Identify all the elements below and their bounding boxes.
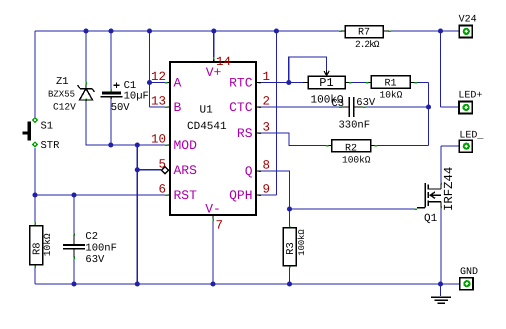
- svg-text:8: 8: [263, 159, 271, 173]
- wire R8 bottom: [34, 268, 36, 284]
- svg-text:R7: R7: [358, 28, 370, 39]
- svg-text:LED+: LED+: [458, 91, 482, 102]
- junction C2 top / RST net: [71, 192, 76, 197]
- junction pin14 / V+ rail: [211, 28, 216, 33]
- svg-text:CTC: CTC: [229, 100, 253, 115]
- svg-text:STR: STR: [41, 140, 61, 152]
- svg-text:Z1: Z1: [56, 76, 69, 88]
- capacitor C2: [63, 231, 117, 266]
- svg-text:P1: P1: [319, 76, 333, 90]
- wire C2 top: [73, 195, 75, 233]
- IC pin names: [174, 65, 253, 217]
- svg-text:BZX55: BZX55: [48, 89, 75, 99]
- pin ticks Q1 gate drain source: [415, 183, 442, 210]
- wire QPH to rail vertical: [261, 31, 276, 195]
- svg-text:1: 1: [263, 70, 271, 84]
- resistor R7: [341, 26, 389, 51]
- junction RTC / P1 wiper: [286, 80, 291, 85]
- svg-text:Q1: Q1: [424, 213, 438, 225]
- wire R2 right: [377, 145, 429, 147]
- wire V+ top rail right of R7: [391, 30, 464, 32]
- wire gate node to Q1 gate: [290, 208, 415, 210]
- wire C2 bottom: [73, 259, 75, 284]
- svg-text:10µF: 10µF: [124, 90, 149, 102]
- svg-text:B: B: [174, 100, 182, 115]
- svg-text:V-: V-: [205, 202, 221, 217]
- svg-text:7: 7: [216, 219, 224, 233]
- junction A-B feed / V+ rail: [147, 28, 152, 33]
- svg-text:2: 2: [263, 95, 271, 109]
- junction pin A: [147, 80, 152, 85]
- pin ticks Z1: [85, 82, 87, 101]
- wire ARS ground vertical: [136, 145, 138, 284]
- svg-text:14: 14: [216, 55, 231, 69]
- wire C1 bottom: [110, 99, 112, 145]
- junction QPH feed / V+ rail: [274, 28, 279, 33]
- svg-text:13: 13: [151, 95, 166, 109]
- wire C1 top: [110, 31, 112, 89]
- wire RC node vertical: [428, 83, 430, 146]
- junction S1 / R8 / RST net: [32, 192, 37, 197]
- svg-text:V24: V24: [459, 15, 477, 26]
- wire pin A: [150, 82, 166, 84]
- junction ARS net: [135, 167, 140, 172]
- svg-text:330nF: 330nF: [339, 120, 371, 132]
- pin ticks R3: [289, 226, 291, 268]
- wire left vertical to S1: [34, 31, 36, 117]
- wire Q1 source to ground rail: [440, 209, 442, 285]
- wire S1 bottom to RST rail: [34, 148, 36, 195]
- resistor R8 (vertical): [30, 225, 54, 266]
- svg-text:Q: Q: [245, 164, 253, 179]
- svg-text:100kΩ: 100kΩ: [297, 229, 307, 256]
- capacitor C3: [332, 97, 376, 132]
- svg-text:GND: GND: [460, 267, 478, 278]
- wire pin B: [150, 106, 166, 108]
- svg-text:LED_: LED_: [459, 131, 484, 142]
- svg-text:100kΩ: 100kΩ: [342, 155, 371, 166]
- wire RTC to P1: [261, 82, 303, 84]
- svg-text:RTC: RTC: [229, 76, 253, 91]
- resistor R2: [329, 140, 375, 166]
- connector LED+: [458, 91, 482, 114]
- capacitor C1 (electrolytic): [101, 80, 149, 114]
- wire V+ top rail left: [35, 30, 339, 32]
- resistor R1: [369, 76, 415, 101]
- svg-text:3: 3: [263, 121, 271, 135]
- svg-text:CD4541: CD4541: [187, 121, 227, 133]
- wire ground symbol stub: [440, 284, 442, 296]
- wire RST rail: [35, 194, 165, 196]
- svg-text:R3: R3: [285, 242, 297, 255]
- svg-text:100nF: 100nF: [85, 243, 117, 255]
- svg-text:MOD: MOD: [174, 138, 198, 153]
- ARS pin 5 inverter bubble: [162, 167, 169, 174]
- connector GND: [460, 267, 478, 290]
- svg-text:R1: R1: [384, 78, 396, 89]
- svg-text:2.2kΩ: 2.2kΩ: [355, 39, 380, 50]
- wire ARS stub: [137, 169, 161, 171]
- pin ticks U1 right pins 1 2 3 8 9: [259, 83, 262, 196]
- wire Z1 top: [85, 31, 87, 82]
- junction Q / R3 / gate node: [287, 206, 292, 211]
- wire R1 right: [417, 82, 429, 84]
- pin ticks R2: [326, 145, 377, 147]
- resistor R3 (vertical): [283, 228, 307, 266]
- svg-text:RST: RST: [174, 188, 198, 203]
- pin ticks C2: [73, 233, 75, 259]
- junction MOD net / ground branch: [135, 142, 140, 147]
- svg-text:R2: R2: [345, 143, 357, 154]
- zener diode Z1: [48, 76, 95, 113]
- svg-text:ARS: ARS: [174, 163, 198, 178]
- IC pin numbers: [151, 55, 270, 233]
- wire GND connector stub: [441, 283, 465, 285]
- wire R3 bottom: [289, 268, 291, 284]
- wire C3 to node: [365, 106, 429, 108]
- svg-text:C3: C3: [332, 98, 345, 110]
- svg-text:C2: C2: [85, 231, 98, 243]
- wire LED+ stub: [441, 106, 465, 108]
- wire R8 top: [34, 195, 36, 222]
- pin ticks U1 pins 14 7: [212, 57, 215, 221]
- wire Z1 bottom / MOD net: [86, 101, 165, 145]
- svg-text:10kΩ: 10kΩ: [380, 90, 403, 101]
- junction C1 top / V+ rail: [108, 28, 113, 33]
- svg-text:63V: 63V: [356, 97, 376, 109]
- IC name/value labels: [187, 105, 227, 134]
- transistor Q1 MOSFET IRFZ44: [417, 183, 441, 208]
- junction C1 bottom / MOD net: [108, 142, 113, 147]
- connector LED_: [459, 131, 484, 153]
- svg-text:6: 6: [158, 183, 166, 197]
- svg-text:10: 10: [151, 133, 166, 147]
- wire LED- to Q1 drain: [441, 146, 464, 183]
- svg-text:50V: 50V: [111, 102, 131, 114]
- svg-text:QPH: QPH: [229, 188, 252, 203]
- junction RC node: [426, 104, 431, 109]
- svg-text:63V: 63V: [85, 254, 105, 266]
- ground symbol: [431, 297, 451, 303]
- svg-text:IRFZ44: IRFZ44: [442, 167, 456, 211]
- switch S1: [22, 117, 60, 152]
- junction Q1 source / GND node: [438, 281, 443, 286]
- wire A/B vertical from rail: [149, 31, 151, 107]
- svg-text:9: 9: [263, 183, 271, 197]
- junction R3 bottom / GND rail: [287, 281, 292, 286]
- pin ticks C3: [339, 106, 366, 108]
- wire Q pin to gate node: [261, 171, 290, 209]
- svg-text:A: A: [174, 76, 182, 91]
- svg-text:S1: S1: [41, 121, 54, 133]
- svg-text:RS: RS: [237, 126, 253, 141]
- pin ticks P1 right and R1: [349, 82, 417, 84]
- pin ticks C1: [110, 89, 112, 99]
- wire CTC to C3: [261, 106, 339, 108]
- junction pin7 / GND rail: [210, 281, 215, 286]
- wire pin 14 V+: [213, 31, 215, 62]
- svg-text:12: 12: [151, 70, 166, 84]
- junction Z1 top / V+ rail: [83, 28, 88, 33]
- wire ground bottom rail: [35, 283, 441, 285]
- IC U1 body: [170, 62, 256, 215]
- svg-text:U1: U1: [200, 105, 214, 117]
- svg-text:5: 5: [158, 158, 166, 172]
- connector V24: [459, 15, 477, 38]
- junction V24 node: [438, 28, 443, 33]
- wire pin 7 V-: [212, 215, 214, 284]
- wire P1 to R1: [351, 82, 366, 84]
- green pin ticks: [35, 31, 441, 268]
- pin ticks U1 left pins 12 13 10 6: [165, 83, 168, 196]
- potentiometer P1: [303, 70, 349, 107]
- wire V24 to LED+ vertical: [440, 31, 442, 107]
- junction ARS branch / GND rail: [135, 281, 140, 286]
- pin ticks R8: [34, 222, 36, 268]
- svg-text:C12V: C12V: [53, 102, 76, 113]
- svg-text:10kΩ: 10kΩ: [42, 233, 53, 256]
- wire RS to R2: [261, 133, 326, 146]
- pin ticks R7: [339, 30, 391, 32]
- junction C2 bottom / GND rail: [71, 281, 76, 286]
- IC pin stubs: [168, 60, 262, 219]
- wire P1 wiper: [289, 57, 327, 83]
- wire R3 top: [289, 209, 291, 226]
